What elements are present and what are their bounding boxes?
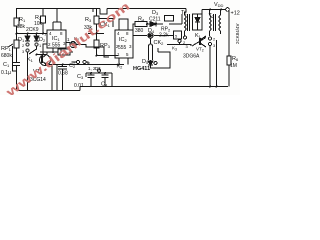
wire left column (16, 9, 18, 19)
wire loop box (156, 52, 170, 68)
resistor R1 (14, 18, 19, 26)
resistor R3 (94, 16, 99, 24)
svg-text:R3: R3 (85, 17, 92, 23)
wire RP3 to y55 (96, 48, 98, 56)
terminal circle under D2 (35, 43, 38, 46)
wire right column R6 (228, 11, 230, 57)
svg-text:C3: C3 (77, 74, 84, 80)
transistor VT2 (199, 38, 201, 45)
svg-text:K1: K1 (27, 57, 34, 63)
op-amp IC2 555 box (115, 30, 133, 58)
svg-text:+12V: +12V (231, 11, 241, 17)
wire K2 to terminals (70, 51, 73, 53)
wire 555 pin8 feed (53, 21, 61, 23)
wire horizontal bus y33 (17, 33, 48, 35)
wire circle stub (98, 72, 100, 73)
wire R3 junction down (96, 34, 98, 41)
wire RP2 row cont (154, 35, 174, 37)
diode D5b (148, 61, 153, 65)
junction dots (16, 9, 223, 88)
svg-text:2CK9: 2CK9 (26, 27, 39, 33)
capacitor C2 (62, 65, 64, 67)
wire K1 node line (37, 54, 44, 56)
transformer T2 core (214, 14, 216, 31)
diode D6b circle (148, 33, 153, 38)
wire RP1 wiper arrow (8, 44, 13, 47)
contact circles right group (208, 37, 211, 40)
svg-text:D5: D5 (142, 59, 149, 65)
svg-text:K1: K1 (195, 33, 202, 39)
wire y55 bus (97, 55, 119, 57)
watermark (2, 0, 132, 100)
terminal circles under D1 (26, 43, 29, 46)
switch arm K1b (192, 38, 206, 47)
svg-text:CK2: CK2 (154, 40, 165, 46)
resistor RP3 (94, 40, 99, 48)
wire IC1 pin5 stub (60, 48, 62, 53)
wire IC1 pin3 out (66, 42, 70, 44)
wire IC1 pin1 stub (52, 48, 54, 53)
svg-text:RP3: RP3 (100, 43, 111, 49)
terminal circle 3 (83, 60, 86, 63)
svg-text:HG411: HG411 (133, 66, 150, 72)
socket CK1 bracket (99, 19, 113, 28)
svg-text:680k: 680k (1, 53, 12, 59)
svg-text:C211: C211 (149, 17, 161, 23)
wire sub right side (111, 73, 113, 87)
terminal circle 2 (76, 60, 79, 63)
transformer T1 core (188, 14, 190, 31)
svg-text:38k: 38k (17, 24, 26, 30)
svg-text:C1: C1 (3, 62, 10, 68)
transformer T2 left winding (210, 15, 212, 31)
resistor R3 column (96, 9, 98, 17)
svg-text:C2: C2 (69, 63, 76, 69)
wire terminal3 to rail C (86, 62, 88, 65)
wire K2 box drop (56, 65, 58, 91)
wire R5 to D5b (150, 60, 152, 61)
wire sub right top (108, 72, 112, 74)
diode D2 (36, 34, 38, 37)
wire CK2 stem (150, 38, 152, 44)
jack CK2 ring (149, 44, 153, 60)
hop bridge (165, 16, 174, 22)
svg-text:R6: R6 (232, 56, 239, 62)
resistor R6 (227, 56, 231, 65)
wire top rail right segment (107, 8, 186, 10)
wire top rail U-dip (100, 9, 107, 15)
wire T1 primary top pin (185, 9, 187, 16)
wire pin4 stub (52, 22, 54, 30)
wire IC2 pin1 down (118, 58, 120, 65)
wire +12V feed line (202, 9, 226, 11)
wire R2 to bus (42, 23, 44, 34)
wire IC1 pin2 to K1 node (43, 44, 47, 55)
transistor VT1 (40, 55, 51, 66)
svg-text:R4: R4 (138, 17, 145, 23)
wire T2 bottom pins (209, 31, 211, 36)
IC2 pin4 bridge (119, 19, 128, 30)
wire R2 column (42, 9, 44, 17)
wire loop to +12V line (201, 10, 203, 15)
wire R1 to node (16, 26, 18, 40)
contact circles left group (184, 36, 187, 39)
wire rail tick (92, 9, 94, 13)
svg-text:T1: T1 (181, 10, 187, 16)
transformer T2 right winding (219, 15, 221, 31)
connector box 5 6 (174, 31, 182, 39)
wire D4 on (156, 23, 163, 25)
svg-text:0.1µ: 0.1µ (1, 70, 11, 76)
wire second drop (216, 40, 218, 87)
wire emitter drop (51, 65, 53, 91)
svg-text:RP1: RP1 (1, 46, 12, 52)
terminal circle mid (97, 69, 100, 72)
wire IC2 pin2 entry (104, 47, 109, 57)
wire bracket drops (85, 73, 87, 77)
wire loop top stub (157, 48, 159, 52)
wire IC2 pin5 stub (127, 58, 129, 65)
diode D3 inside loop (195, 18, 200, 23)
svg-text:555: 555 (118, 45, 127, 51)
diode D6 circle (70, 42, 76, 48)
svg-text:R1: R1 (19, 17, 26, 23)
wire R4 to D4 (147, 23, 150, 25)
terminal circle under box (178, 40, 181, 43)
wire T1 primary bottom pin (184, 31, 186, 36)
svg-text:2CK84/4V: 2CK84/4V (235, 23, 240, 44)
wire rail C (mid) (47, 64, 124, 66)
wire RP1 wiper stem (13, 46, 17, 71)
wire to T1 (169, 23, 182, 25)
svg-text:1M: 1M (230, 63, 237, 69)
terminal +12V circle (226, 8, 230, 12)
wire VT2 emitter drop (209, 46, 211, 87)
svg-text:IC2: IC2 (119, 37, 128, 43)
wire bottom rail left (17, 90, 81, 92)
resistor R4 (135, 22, 147, 27)
capacitor C4 (104, 73, 106, 75)
svg-text:IC1: IC1 (52, 36, 61, 42)
wire R6 to rail (228, 65, 230, 87)
wire D6 to IC2 (76, 45, 104, 48)
wire K1 left drop (27, 52, 29, 91)
wire bus y33 middle (88, 33, 104, 35)
svg-text:D4: D4 (148, 28, 155, 34)
svg-text:3DG6A: 3DG6A (183, 54, 200, 60)
wire C1 to bottom rail (16, 66, 18, 91)
resistor R2 (41, 16, 46, 23)
wire bottom rail middle jog (79, 87, 81, 91)
wire T2 top pins (209, 10, 211, 16)
svg-text:D3: D3 (152, 10, 159, 16)
svg-text:0.68: 0.68 (58, 71, 68, 77)
switch K1 arm (29, 46, 37, 54)
wire pin8 stub (60, 22, 62, 30)
wire VT1 collector up (40, 52, 47, 54)
resistor RP1 (14, 40, 19, 48)
diode D4 (150, 22, 156, 27)
op-amp IC1 555 box (47, 30, 66, 48)
svg-text:0.01: 0.01 (74, 83, 84, 89)
wire RP2 row (133, 35, 147, 37)
sub-circuit bracket top (86, 72, 108, 74)
wire contact row (179, 43, 181, 45)
wire loop HG (151, 65, 157, 68)
capacitor C3 (90, 73, 92, 75)
svg-text:2.2k: 2.2k (159, 33, 169, 39)
wire RP1 down to C1 (16, 48, 18, 62)
wire R3 down (96, 24, 98, 34)
relay K2 coil box (58, 49, 70, 55)
wire top rail left segment (16, 8, 100, 10)
diode D1 (27, 34, 29, 37)
wire R4 row feed (133, 24, 135, 30)
wire VT1 base (42, 55, 43, 59)
transformer T1 left winding (185, 15, 187, 31)
svg-text:VDD: VDD (214, 2, 224, 8)
svg-text:T2: T2 (209, 13, 215, 19)
svg-text:C4: C4 (101, 82, 108, 88)
wire bottom rail main (80, 86, 228, 88)
wire K2 coil feed (47, 51, 58, 53)
rectifier loop box of T1 secondary (193, 14, 203, 30)
svg-text:380: 380 (135, 28, 144, 34)
wire 555 pin4 feed (57, 9, 61, 23)
capacitor C1 (13, 63, 20, 66)
